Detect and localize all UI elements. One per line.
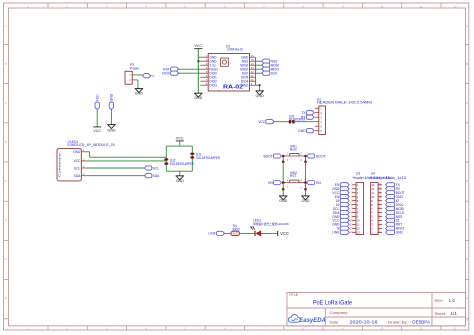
svg-text:GND: GND <box>194 96 203 100</box>
svg-text:VCC: VCC <box>258 120 266 124</box>
svg-text:C: C <box>5 101 7 105</box>
svg-text:12: 12 <box>371 187 374 191</box>
svg-text:13: 13 <box>357 231 360 235</box>
svg-text:TITLE:: TITLE: <box>289 293 299 297</box>
svg-text:D: D <box>466 140 468 144</box>
svg-text:LINK: LINK <box>209 232 217 236</box>
svg-text:GND: GND <box>176 179 185 183</box>
svg-text:Power: Power <box>130 66 140 70</box>
svg-text:Header-Male_1x13: Header-Male_1x13 <box>371 176 407 180</box>
svg-text:E: E <box>466 179 468 183</box>
svg-text:LORA Ra-02: LORA Ra-02 <box>227 48 243 52</box>
svg-text:RA-02: RA-02 <box>223 85 243 91</box>
svg-text:G: G <box>5 257 7 261</box>
svg-text:SOLDERJUMPER: SOLDERJUMPER <box>289 118 306 122</box>
svg-text:0.96OLED_4P_MODULE_JX: 0.96OLED_4P_MODULE_JX <box>67 143 115 147</box>
svg-text:12: 12 <box>357 227 360 231</box>
svg-text:GND: GND <box>135 92 144 96</box>
svg-text:VCC: VCC <box>176 136 184 140</box>
svg-text:SOLDERJUMPER: SOLDERJUMPER <box>196 156 221 160</box>
svg-text:DIO0: DIO0 <box>162 72 170 76</box>
svg-text:SDA: SDA <box>153 174 161 178</box>
svg-text:Company:: Company: <box>330 310 349 315</box>
svg-text:GND: GND <box>73 150 81 154</box>
svg-text:VCC: VCC <box>93 129 101 133</box>
svg-text:GND: GND <box>255 94 264 98</box>
svg-text:DIO3: DIO3 <box>209 84 217 88</box>
svg-text:EasyEDA: EasyEDA <box>299 317 326 324</box>
svg-text:E: E <box>5 179 7 183</box>
svg-text:HEADER MALE-1X6-2.54MM: HEADER MALE-1X6-2.54MM <box>317 101 372 105</box>
svg-text:Connector: Connector <box>58 153 62 177</box>
svg-text:EN: EN <box>316 181 321 185</box>
svg-text:1.0: 1.0 <box>449 298 456 303</box>
svg-text:H: H <box>5 296 7 300</box>
svg-text:SCL: SCL <box>153 166 160 170</box>
svg-text:GND: GND <box>298 129 306 133</box>
svg-text:13: 13 <box>371 183 374 187</box>
svg-text:H: H <box>466 296 468 300</box>
svg-text:B: B <box>466 62 468 66</box>
svg-text:5V: 5V <box>152 74 155 78</box>
svg-text:SCK: SCK <box>271 72 279 76</box>
svg-text:SCL: SCL <box>74 166 80 170</box>
svg-text:BOOT: BOOT <box>316 154 325 158</box>
svg-text:SDA: SDA <box>74 174 81 178</box>
svg-text:A: A <box>466 24 468 28</box>
svg-text:GND: GND <box>107 129 116 133</box>
svg-text:10: 10 <box>371 195 374 199</box>
svg-text:GND: GND <box>301 199 310 203</box>
svg-text:A: A <box>5 24 7 28</box>
svg-text:RST: RST <box>290 174 296 178</box>
svg-text:B: B <box>5 62 7 66</box>
svg-text:PoE LoRa iGate: PoE LoRa iGate <box>313 300 353 306</box>
svg-text:Date:: Date: <box>330 319 340 324</box>
svg-text:11: 11 <box>357 223 360 227</box>
svg-text:G: G <box>466 257 468 261</box>
svg-text:VCC: VCC <box>194 44 202 48</box>
svg-text:LINK: LINK <box>332 231 340 235</box>
svg-text:Drawn By:: Drawn By: <box>388 319 408 324</box>
svg-text:GND: GND <box>110 93 114 101</box>
svg-text:GND: GND <box>396 231 404 235</box>
svg-text:绿色贴片发光二极管LED1206: 绿色贴片发光二极管LED1206 <box>253 221 289 226</box>
svg-text:SOLDERJUMPER: SOLDERJUMPER <box>170 162 195 166</box>
svg-text:EN: EN <box>268 181 273 185</box>
svg-text:D: D <box>5 140 7 144</box>
svg-text:VCC: VCC <box>280 231 289 236</box>
svg-text:330Ω: 330Ω <box>232 227 240 231</box>
svg-text:1/1: 1/1 <box>451 311 458 316</box>
svg-text:REV:: REV: <box>435 298 444 303</box>
svg-text:Sheet:: Sheet: <box>435 311 447 316</box>
svg-text:BOOT: BOOT <box>263 154 272 158</box>
svg-text:OE5BPA: OE5BPA <box>412 320 431 325</box>
svg-text:C: C <box>466 101 468 105</box>
svg-text:Boot: Boot <box>290 148 297 152</box>
svg-text:10: 10 <box>357 219 360 223</box>
svg-text:2020-10-16: 2020-10-16 <box>350 320 379 325</box>
svg-text:GND: GND <box>279 199 288 203</box>
svg-text:VCC: VCC <box>95 94 99 102</box>
svg-text:VCC: VCC <box>74 159 81 163</box>
